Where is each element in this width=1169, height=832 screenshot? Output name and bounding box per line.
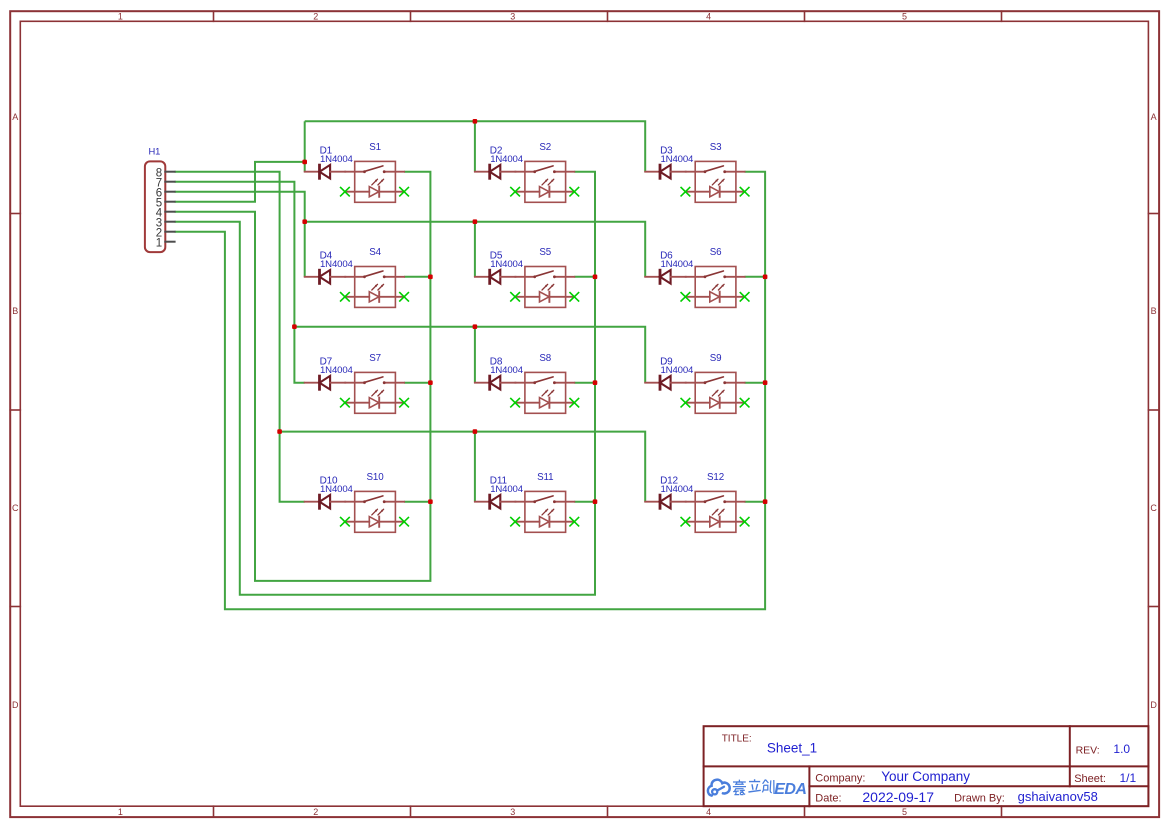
wire S10 output stub — [404, 501, 430, 503]
switch S1 — [345, 161, 404, 202]
switch S6 — [685, 267, 744, 308]
diode D3 1N4004 — [645, 165, 686, 179]
svg-text:1N4004: 1N4004 — [661, 154, 695, 165]
svg-text:4: 4 — [706, 807, 711, 817]
svg-text:gshaivanov58: gshaivanov58 — [1018, 789, 1098, 804]
H1 pin 3 number — [156, 217, 162, 229]
diode D12 1N4004 — [645, 495, 686, 509]
label D3 — [660, 145, 673, 156]
value 1N4004 of D3 — [661, 154, 695, 165]
wire D8 drop from row3 bus — [474, 327, 476, 383]
wire D11 drop from row4 bus — [474, 432, 476, 502]
svg-text:S9: S9 — [710, 353, 722, 364]
wire S11 output stub — [574, 501, 595, 503]
junction row1 pin5 tee — [302, 160, 307, 165]
diode D2 1N4004 — [475, 165, 516, 179]
switch S7 — [345, 372, 404, 413]
svg-text:S6: S6 — [710, 247, 722, 258]
wire S5 output stub — [574, 276, 595, 278]
label S1 — [369, 142, 381, 153]
svg-text:C: C — [1150, 503, 1157, 513]
junction D2 row1 bus — [473, 119, 478, 124]
label S7 — [369, 353, 381, 364]
svg-text:1/1: 1/1 — [1120, 771, 1137, 785]
value 1N4004 of D12 — [661, 484, 695, 495]
H1 pin 4 stub — [165, 211, 174, 213]
H1 pin 4 number — [156, 207, 163, 219]
H1 pin 1 stub — [165, 241, 174, 243]
junction D11 row4 bus — [473, 429, 478, 434]
svg-text:D: D — [12, 700, 19, 710]
wire row4 bus to D12 — [280, 432, 646, 502]
svg-text:Company:: Company: — [815, 773, 865, 785]
label D1 — [320, 145, 333, 156]
svg-text:1N4004: 1N4004 — [320, 154, 354, 165]
svg-text:S1: S1 — [369, 142, 381, 153]
value 1N4004 of D5 — [490, 259, 524, 270]
H1 pin 6 stub — [165, 191, 174, 193]
svg-text:Sheet_1: Sheet_1 — [767, 741, 817, 756]
wire S6 output stub — [745, 276, 766, 278]
diode D8 1N4004 — [475, 376, 516, 390]
label S10 — [367, 472, 385, 483]
label S3 — [710, 142, 722, 153]
svg-text:1N4004: 1N4004 — [661, 484, 695, 495]
svg-text:S11: S11 — [537, 472, 553, 483]
Drawn By value gshaivanov58 — [1018, 789, 1098, 804]
svg-text:5: 5 — [902, 807, 907, 817]
label D8 — [490, 356, 503, 367]
svg-text:1N4004: 1N4004 — [320, 365, 354, 376]
wire H1 pin7 to row3 bus — [175, 182, 295, 327]
wire S4 output stub — [404, 276, 430, 278]
wire row4 drop to D10 — [280, 432, 305, 502]
switch S9 — [685, 372, 744, 413]
label S6 — [710, 247, 722, 258]
switch S12 — [685, 491, 744, 532]
Drawn By label — [954, 793, 1005, 805]
svg-text:S4: S4 — [369, 247, 381, 258]
svg-text:Your Company: Your Company — [881, 769, 970, 784]
value 1N4004 of D2 — [490, 154, 524, 165]
value 1N4004 of D9 — [661, 365, 695, 376]
value 1N4004 of D8 — [490, 365, 524, 376]
svg-text:S3: S3 — [710, 142, 722, 153]
junction col3 S6 — [763, 275, 768, 280]
value 1N4004 of D11 — [490, 484, 524, 495]
H1 pin 8 stub — [165, 171, 174, 173]
wire column2 S outputs to H1 pin3 — [175, 172, 595, 595]
svg-text:S10: S10 — [367, 472, 385, 483]
diode D7 1N4004 — [305, 376, 346, 390]
diode D5 1N4004 — [475, 270, 516, 284]
value 1N4004 of D7 — [320, 365, 354, 376]
diode D6 1N4004 — [645, 270, 686, 284]
wire S9 output stub — [745, 382, 766, 384]
wire S12 output stub — [745, 501, 766, 503]
wire row3 bus to D9 — [294, 327, 645, 383]
JLCEDA logo text — [733, 779, 807, 798]
title block — [704, 726, 1149, 806]
no-connect X marks of S7 LED — [341, 399, 409, 407]
no-connect X marks of S10 LED — [341, 518, 409, 526]
svg-text:3: 3 — [510, 807, 515, 817]
no-connect X marks of S1 LED — [341, 188, 409, 196]
label D11 — [490, 475, 508, 486]
Date value 2022-09-17 — [862, 789, 934, 805]
H1 pin 7 stub — [165, 181, 174, 183]
svg-text:C: C — [12, 503, 19, 513]
svg-text:S12: S12 — [707, 472, 724, 483]
H1 pin 3 stub — [165, 221, 174, 223]
svg-text:REV:: REV: — [1076, 744, 1100, 756]
H1 pin 2 stub — [165, 231, 174, 233]
svg-text:D: D — [1150, 700, 1157, 710]
switch S11 — [515, 491, 574, 532]
svg-text:S8: S8 — [539, 353, 551, 364]
connector H1 — [145, 161, 165, 252]
label D12 — [660, 475, 678, 486]
no-connect X marks of S4 LED — [341, 293, 409, 301]
svg-text:Drawn By:: Drawn By: — [954, 793, 1005, 805]
Date label — [815, 793, 841, 805]
no-connect X marks of S6 LED — [681, 293, 749, 301]
diode D10 1N4004 — [305, 495, 346, 509]
wire S8 output stub — [574, 382, 595, 384]
no-connect X marks of S8 LED — [511, 399, 579, 407]
Sheet label — [1074, 773, 1106, 785]
svg-text:1N4004: 1N4004 — [320, 259, 354, 270]
diode D11 1N4004 — [475, 495, 516, 509]
label D4 — [320, 251, 333, 262]
wire H1 pin8 to row4 bus — [175, 172, 280, 432]
switch S5 — [515, 267, 574, 308]
H1 pin 5 number — [156, 197, 162, 209]
wire column3 S outputs to H1 pin2 — [175, 172, 766, 610]
Company label — [815, 773, 865, 785]
junction col2 S11 — [593, 499, 598, 504]
label D2 — [490, 145, 503, 156]
H1 pin 5 stub — [165, 201, 174, 203]
label D6 — [660, 251, 673, 262]
wire D5 drop from row2 bus — [474, 222, 476, 277]
REV value 1.0 — [1113, 742, 1130, 756]
no-connect X marks of S2 LED — [511, 188, 579, 196]
junction row3 pin7 tee — [292, 324, 297, 329]
label S11 — [537, 472, 553, 483]
svg-text:EDA: EDA — [774, 781, 806, 798]
svg-text:Date:: Date: — [815, 793, 841, 805]
svg-text:A: A — [1151, 112, 1157, 122]
label D5 — [490, 251, 503, 262]
label S9 — [710, 353, 722, 364]
junction row4 pin8 tee — [277, 429, 282, 434]
value 1N4004 of D1 — [320, 154, 354, 165]
wire row3 drop to D7 — [294, 327, 304, 383]
svg-text:1N4004: 1N4004 — [320, 484, 354, 495]
connector H1 label — [149, 146, 161, 157]
label D9 — [660, 356, 673, 367]
wire S7 output stub — [404, 382, 430, 384]
svg-text:H1: H1 — [149, 146, 161, 157]
junction col2 S5 — [593, 275, 598, 280]
svg-text:TITLE:: TITLE: — [722, 734, 752, 745]
label S8 — [539, 353, 551, 364]
svg-text:B: B — [1151, 306, 1157, 316]
no-connect X marks of S11 LED — [511, 518, 579, 526]
wire row1 vertical to D1 — [304, 121, 306, 171]
svg-text:3: 3 — [510, 11, 515, 21]
H1 pin 7 number — [156, 177, 162, 189]
no-connect X marks of S5 LED — [511, 293, 579, 301]
svg-text:S5: S5 — [539, 247, 551, 258]
wire H1 pin5 to row1 node — [175, 162, 305, 202]
switch S10 — [345, 491, 404, 532]
switch S2 — [515, 161, 574, 202]
svg-text:1N4004: 1N4004 — [661, 365, 695, 376]
svg-text:A: A — [12, 112, 18, 122]
svg-text:2: 2 — [313, 807, 318, 817]
title value Sheet_1 — [767, 741, 817, 756]
no-connect X marks of S3 LED — [681, 188, 749, 196]
svg-text:B: B — [12, 306, 18, 316]
value 1N4004 of D4 — [320, 259, 354, 270]
no-connect X marks of S9 LED — [681, 399, 749, 407]
Sheet value 1/1 — [1120, 771, 1137, 785]
junction col1 S4 — [428, 275, 433, 280]
svg-text:S2: S2 — [539, 142, 551, 153]
label S2 — [539, 142, 551, 153]
label D7 — [320, 356, 333, 367]
junction col1 S10 — [428, 499, 433, 504]
wire row1 bus to D3 — [305, 121, 646, 171]
label S12 — [707, 472, 724, 483]
junction col3 S12 — [763, 499, 768, 504]
junction D5 row2 bus — [473, 219, 478, 224]
svg-text:1N4004: 1N4004 — [490, 365, 524, 376]
svg-text:Sheet:: Sheet: — [1074, 773, 1106, 785]
junction col3 S9 — [763, 380, 768, 385]
svg-text:1N4004: 1N4004 — [490, 484, 524, 495]
wire column1 S outputs to H1 pin4 — [175, 172, 431, 581]
svg-text:1N4004: 1N4004 — [490, 259, 524, 270]
Company value Your Company — [881, 769, 970, 784]
H1 pin 6 number — [156, 187, 162, 199]
diode D4 1N4004 — [305, 270, 346, 284]
junction col1 S7 — [428, 380, 433, 385]
wire H1 pin6 to row2 bus and D4 — [175, 192, 305, 277]
svg-text:1N4004: 1N4004 — [661, 259, 695, 270]
diode D1 1N4004 — [305, 165, 346, 179]
JLCEDA logo cloud icon — [708, 780, 730, 796]
svg-text:1: 1 — [118, 11, 123, 21]
H1 pin 1 number — [156, 237, 162, 249]
svg-text:1: 1 — [118, 807, 123, 817]
H1 pin 2 number — [156, 227, 162, 239]
value 1N4004 of D10 — [320, 484, 354, 495]
junction row2 pin6 tee — [302, 219, 307, 224]
title block TITLE label — [722, 734, 752, 745]
diode D9 1N4004 — [645, 376, 686, 390]
wire D2 drop from row1 bus — [474, 121, 476, 171]
junction D8 row3 bus — [473, 324, 478, 329]
no-connect X marks of S12 LED — [681, 518, 749, 526]
switch S3 — [685, 161, 744, 202]
label D10 — [320, 475, 338, 486]
wire row2 bus to D6 — [305, 222, 646, 277]
junction col2 S8 — [593, 380, 598, 385]
switch S4 — [345, 267, 404, 308]
switch S8 — [515, 372, 574, 413]
label S4 — [369, 247, 381, 258]
svg-text:2: 2 — [313, 11, 318, 21]
label S5 — [539, 247, 551, 258]
svg-text:5: 5 — [902, 11, 907, 21]
H1 pin 8 number — [156, 167, 162, 179]
svg-text:4: 4 — [706, 11, 711, 21]
svg-text:S7: S7 — [369, 353, 381, 364]
svg-text:1: 1 — [156, 237, 162, 249]
svg-text:1N4004: 1N4004 — [490, 154, 524, 165]
REV label — [1076, 744, 1100, 756]
svg-text:2022-09-17: 2022-09-17 — [862, 789, 934, 805]
value 1N4004 of D6 — [661, 259, 695, 270]
svg-text:1.0: 1.0 — [1113, 742, 1130, 756]
